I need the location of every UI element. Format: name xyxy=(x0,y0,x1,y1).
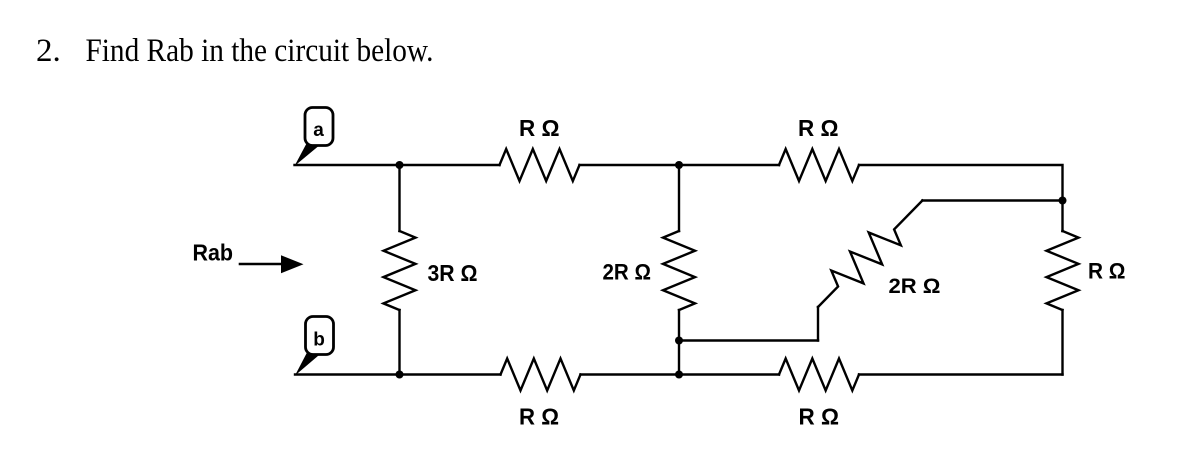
svg-text:3R Ω: 3R Ω xyxy=(428,260,478,286)
svg-text:R Ω: R Ω xyxy=(519,404,559,430)
svg-text:R Ω: R Ω xyxy=(519,115,560,141)
svg-text:R Ω: R Ω xyxy=(1088,259,1126,284)
resistor R3 (3R ohm, left vertical) xyxy=(384,165,478,375)
node dot right rail junction xyxy=(1059,197,1067,205)
wire bottom rail right xyxy=(859,373,1063,375)
resistor R6 (R ohm, right vertical) xyxy=(1047,231,1126,375)
svg-text:Find Rab in the circuit below.: Find Rab in the circuit below. xyxy=(86,33,434,69)
svg-text:b: b xyxy=(313,329,325,350)
svg-text:a: a xyxy=(313,120,324,141)
resistor R2 (R ohm, top right) xyxy=(779,115,859,181)
wire diagonal top to right rail xyxy=(922,199,1062,201)
svg-text:2.: 2. xyxy=(36,33,61,69)
resistor R4 (2R ohm, middle vertical) xyxy=(603,165,696,341)
resistor R7 (R ohm, bottom left) xyxy=(501,359,581,430)
wire 2R bottom to bottom rail xyxy=(678,341,680,375)
wire bottom rail middle xyxy=(581,373,780,375)
resistor R1 (R ohm, top left) xyxy=(500,115,580,181)
wire top rail right + right corner down xyxy=(859,165,1063,231)
svg-text:Rab: Rab xyxy=(193,240,234,266)
wire horizontal from 2R bottom to diagonal branch xyxy=(679,339,818,341)
terminal b xyxy=(295,317,334,376)
wire top rail left (a to R1) xyxy=(295,164,500,166)
node dot bottom of 3R xyxy=(396,371,404,379)
node dot bottom of 2R xyxy=(675,371,683,379)
resistor R8 (R ohm, bottom right) xyxy=(779,359,859,430)
svg-text:R Ω: R Ω xyxy=(798,115,839,141)
svg-text:2R Ω: 2R Ω xyxy=(889,275,941,298)
node dot 2R bottom junction xyxy=(675,337,683,345)
node dot top of 2R xyxy=(675,161,683,169)
resistor R5 (2R ohm, diagonal) xyxy=(818,201,941,308)
terminal a xyxy=(295,108,334,167)
svg-text:R Ω: R Ω xyxy=(799,404,840,430)
svg-text:2R Ω: 2R Ω xyxy=(603,260,652,285)
wire bottom rail left (b to R7) xyxy=(295,373,501,375)
arrow Rab xyxy=(240,255,304,273)
wire vertical kink up to diagonal resistor xyxy=(817,307,819,341)
wire top rail middle xyxy=(580,164,780,166)
node dot top of 3R xyxy=(396,161,404,169)
